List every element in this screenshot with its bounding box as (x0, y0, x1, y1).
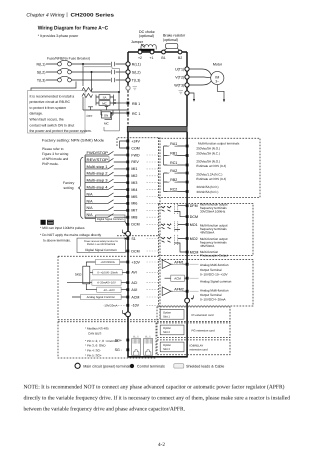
wires drive to motor (189, 69, 211, 85)
svg-text:AFM1: AFM1 (174, 261, 184, 265)
dashed link RB-RC (127, 91, 129, 127)
node R tap (82, 63, 84, 65)
svg-text:B1: B1 (161, 56, 165, 60)
svg-text:REV: REV (131, 160, 139, 164)
svg-text:30V/20mA 100kHz: 30V/20mA 100kHz (200, 210, 226, 214)
svg-text:MI4: MI4 (131, 188, 137, 192)
terminal MI1 (126, 168, 129, 171)
terminal MI6 (126, 202, 129, 205)
comm section dashed box (58, 322, 156, 358)
svg-text:* Pin 3, 6: GND: * Pin 3, 6: GND (85, 344, 106, 348)
svg-text:30Vdc/5A (N.C.): 30Vdc/5A (N.C.) (196, 190, 218, 194)
svg-text:* Pin 4: SG-: * Pin 4: SG- (85, 349, 101, 353)
relay contact RA1 (164, 143, 186, 146)
svg-text:Slot 2: Slot 2 (163, 331, 170, 334)
pushbutton ON with MC holding contact (101, 107, 113, 116)
svg-text:R(L1): R(L1) (132, 62, 141, 66)
svg-text:OFF: OFF (87, 114, 93, 118)
svg-text:PG extension card: PG extension card (192, 329, 215, 333)
svg-text:|: | (66, 12, 67, 18)
svg-text:Chapter 4 Wiring: Chapter 4 Wiring (26, 12, 64, 18)
svg-text:Analog Signal common: Analog Signal common (200, 279, 232, 283)
terminal AFM2 (186, 290, 189, 293)
svg-text:Wiring Diagram for Frame A~C: Wiring Diagram for Frame A~C (38, 26, 109, 32)
svg-text:8←1: 8←1 (145, 336, 151, 339)
ground motor (217, 85, 224, 100)
option slot 2 card box (157, 323, 230, 338)
svg-text:RA1: RA1 (170, 142, 177, 146)
svg-text:* Pin 5: SG+: * Pin 5: SG+ (85, 353, 102, 357)
svg-text:250Vac/1.2A (N.C.): 250Vac/1.2A (N.C.) (196, 173, 222, 177)
opto ratings text (200, 203, 228, 258)
svg-text:R(L1): R(L1) (37, 62, 46, 66)
svg-text:B2: B2 (178, 56, 182, 60)
svg-text:Main circuit (power) terminals: Main circuit (power) terminals (83, 365, 131, 369)
terminal MI5 (126, 195, 129, 198)
relay contact RB1 (164, 152, 186, 156)
svg-text:EN954-1 and IEC/EN61508: EN954-1 and IEC/EN61508 (87, 243, 116, 246)
terminal B2 (178, 50, 182, 54)
svg-text:+10V: +10V (131, 260, 140, 264)
output bus (186, 52, 188, 126)
svg-text:+24V: +24V (131, 139, 140, 143)
svg-text:extension card: extension card (190, 348, 209, 352)
internal dashed leads digital (147, 155, 159, 224)
svg-text:* MI8 can input 100kHz pulses: * MI8 can input 100kHz pulses (40, 226, 85, 230)
svg-text:Shielded leads & Cable: Shielded leads & Cable (186, 365, 224, 369)
wire AVI (94, 271, 127, 273)
digital section dashed box (117, 138, 160, 320)
svg-text:MI8: MI8 (131, 216, 137, 220)
svg-text:+10V/20mA: +10V/20mA (101, 261, 115, 264)
svg-text:Fuse/NFB(No Fuse Breaker): Fuse/NFB(No Fuse Breaker) (47, 57, 90, 61)
op-amp AFM1 (162, 260, 171, 269)
MC contact R (111, 62, 115, 66)
svg-text:+2: +2 (138, 56, 142, 60)
svg-text:MC: MC (102, 101, 107, 105)
switch Multi-step 1 (85, 165, 127, 169)
MC contact T (111, 78, 115, 82)
svg-text:ACM: ACM (131, 295, 139, 299)
terminal +24V (126, 140, 129, 143)
input bus (127, 52, 129, 89)
svg-text:W(T3): W(T3) (174, 83, 184, 87)
svg-text:damage.: damage. (30, 112, 43, 116)
svg-text:between the variable frequency: between the variable frequency drive and… (24, 407, 186, 413)
relay output dashed box (158, 138, 260, 197)
svg-text:Power removal safety function: Power removal safety function for (84, 240, 118, 243)
wire +10V (94, 261, 127, 263)
svg-text:NOTE: It is recommended NOT to: NOTE: It is recommended NOT to connect a… (24, 384, 285, 390)
svg-text:Photocoupler Output: Photocoupler Output (200, 254, 228, 258)
jumper loop +24V COM (120, 141, 127, 148)
fuse resistor F2 (82, 94, 93, 98)
svg-text:(optional): (optional) (139, 34, 154, 38)
safety function box S1 (77, 238, 125, 253)
svg-text:Digital Signal Common: Digital Signal Common (97, 217, 124, 221)
svg-text:MC: MC (104, 122, 109, 126)
relay ratings text (196, 146, 226, 193)
svg-text:IO extension card: IO extension card (192, 313, 214, 317)
svg-text:3~: 3~ (215, 80, 219, 84)
svg-text:N/A: N/A (87, 192, 94, 196)
terminal COM (126, 147, 129, 150)
svg-text:DCM: DCM (131, 223, 139, 227)
wire control power tap (84, 67, 119, 91)
svg-text:to above terminals.: to above terminals. (43, 239, 71, 243)
svg-text:S1: S1 (131, 237, 135, 241)
wire R drop (82, 64, 84, 86)
option slot 3 card box (157, 340, 230, 355)
svg-text:4~20mA/0~10V: 4~20mA/0~10V (97, 282, 116, 285)
svg-text:S(L2): S(L2) (132, 70, 141, 74)
svg-text:setting: setting (64, 186, 74, 190)
svg-text:Analog Signal Common: Analog Signal Common (87, 296, 116, 299)
svg-text:0~10VDC/-10~+10V: 0~10VDC/-10~+10V (200, 273, 228, 277)
legend shielded cable (174, 364, 184, 368)
svg-text:Digital Signal Common: Digital Signal Common (85, 248, 117, 252)
svg-text:Output Terminal: Output Terminal (200, 293, 222, 297)
fuse resistor F1 (82, 88, 93, 92)
terminal -10V (126, 304, 129, 307)
afm text (200, 263, 232, 302)
brake resistor body (166, 44, 178, 49)
svg-text:MO1: MO1 (190, 223, 198, 227)
svg-text:SG -: SG - (115, 348, 123, 352)
terminal SG- (126, 348, 129, 351)
relay contact group 2 common line (163, 173, 165, 192)
terminal +10V (126, 261, 129, 264)
svg-text:* Do NOT apply the mains volt: * Do NOT apply the mains voltage directl… (40, 233, 101, 237)
photocoupler MO1 (161, 221, 186, 231)
svg-text:V(T2): V(T2) (175, 75, 184, 79)
switch common line (84, 155, 86, 218)
analog output dashed box (158, 259, 253, 306)
wire R phase (46, 63, 126, 65)
svg-text:RA2: RA2 (170, 169, 177, 173)
svg-text:MCM: MCM (190, 250, 199, 254)
terminal MCM (186, 251, 189, 254)
svg-text:ON: ON (104, 113, 108, 117)
svg-text:Estimate at COS (0.4): Estimate at COS (0.4) (196, 164, 226, 168)
svg-text:AVI: AVI (131, 271, 137, 275)
svg-text:T(L3): T(L3) (37, 78, 46, 82)
op-amp AFM2 (162, 287, 171, 296)
svg-text:SA: SA (103, 95, 107, 99)
svg-text:4-2: 4-2 (158, 442, 165, 448)
svg-text:8←1: 8←1 (133, 336, 139, 339)
breaker R (58, 62, 62, 66)
svg-text:Multi-step 3: Multi-step 3 (87, 179, 108, 183)
switch N/A MI8 (85, 214, 127, 218)
terminal S1 (126, 237, 129, 240)
svg-text:Analog Multi-function: Analog Multi-function (200, 288, 229, 292)
photocoupler DFM (161, 204, 186, 217)
internal dashed leads analog (147, 262, 159, 305)
switch Multi-step 2 (85, 172, 127, 176)
option slot 1 card box (157, 307, 230, 322)
svg-text:250Vac/3A (N.C.): 250Vac/3A (N.C.) (196, 152, 219, 156)
svg-text:REV/STOP: REV/STOP (87, 158, 109, 162)
contact SA (99, 95, 110, 100)
svg-text:Option: Option (163, 312, 171, 315)
svg-text:MI2: MI2 (131, 174, 137, 178)
ground terminal output (185, 91, 189, 95)
svg-text:PNP mode.: PNP mode. (42, 162, 59, 166)
analog section dashed box (58, 256, 160, 320)
svg-text:Figure 3 for wiring: Figure 3 for wiring (42, 152, 69, 156)
svg-text:S(L2): S(L2) (37, 70, 46, 74)
terminal RB2r (186, 181, 189, 184)
terminal B1 (162, 50, 166, 54)
svg-text:When fault occurs, the: When fault occurs, the (30, 118, 64, 122)
wire ACI (67, 282, 127, 284)
svg-text:RC2: RC2 (170, 188, 177, 192)
switch FWD/STOP (85, 151, 127, 155)
terminal MO2 (186, 237, 189, 240)
svg-text:It is recommended to install a: It is recommended to install a (30, 94, 75, 98)
factory setting brace (78, 157, 83, 218)
terminal +2 (138, 50, 142, 54)
svg-text:Jumper: Jumper (131, 40, 144, 44)
svg-text:Multi-step 4: Multi-step 4 (87, 186, 108, 190)
svg-text:CH2000 Series: CH2000 Series (71, 12, 115, 18)
terminal REV (126, 161, 129, 164)
wire S drop (91, 72, 93, 92)
main circuit / control circuit separator bar (127, 127, 187, 132)
terminal AFM1 (186, 263, 189, 266)
wire ACM out (165, 277, 186, 279)
ground terminal input (126, 86, 130, 90)
svg-text:48V/50mA: 48V/50mA (200, 230, 215, 234)
terminal DCM3 (186, 215, 189, 218)
svg-text:Slot 3: Slot 3 (163, 348, 170, 351)
wire MC coil return (104, 110, 119, 131)
svg-text:+1: +1 (150, 56, 154, 60)
terminal DCM safety (126, 250, 129, 253)
shield ground node 1 (126, 231, 131, 236)
svg-text:Option: Option (163, 327, 171, 330)
relay contact RB2 (164, 179, 186, 183)
afm leader lines (190, 264, 199, 291)
shield ground node 3 (185, 298, 190, 303)
svg-text:contact will switch ON to shut: contact will switch ON to shut (30, 123, 75, 127)
svg-text:MO2: MO2 (190, 237, 198, 241)
jumper arrow (141, 44, 145, 48)
node J1 (118, 91, 120, 93)
svg-text:-10V: -10V (131, 304, 139, 308)
internal dashed leads S1 (147, 239, 159, 252)
svg-text:Control terminals: Control terminals (137, 365, 165, 369)
svg-text:0~+10V/0~20mA: 0~+10V/0~20mA (97, 271, 117, 274)
svg-text:MI3: MI3 (131, 181, 137, 185)
wire DCM2 (125, 250, 126, 252)
svg-text:* It provides 3-phase power: * It provides 3-phase power (38, 34, 79, 38)
svg-text:RB 1: RB 1 (132, 102, 140, 106)
terminal S(L2) (126, 70, 130, 74)
SA MC parallel loop (96, 95, 114, 106)
terminal RA2 (186, 172, 189, 175)
terminal MI8 (126, 216, 129, 219)
svg-text:DFM: DFM (190, 204, 198, 208)
svg-text:ACI: ACI (131, 281, 137, 285)
svg-text:of NPN mode and: of NPN mode and (42, 157, 68, 161)
svg-text:250Vac/5A (N.O.): 250Vac/5A (N.O.) (196, 146, 220, 150)
svg-text:RB2: RB2 (170, 178, 177, 182)
terminal W(T3) (185, 83, 189, 87)
svg-text:Multi-step 1: Multi-step 1 (87, 165, 108, 169)
svg-text:AFM2: AFM2 (174, 288, 184, 292)
relay wire RC1 (164, 164, 186, 166)
svg-text:RC1: RC1 (170, 161, 177, 165)
terminal V(T2) (185, 75, 189, 79)
relay wire RC2 (164, 191, 186, 193)
svg-text:RB1: RB1 (170, 152, 177, 156)
svg-text:T(L3): T(L3) (132, 78, 141, 82)
svg-text:COM: COM (131, 146, 139, 150)
svg-text:protective circuit at RB-RC: protective circuit at RB-RC (30, 100, 71, 104)
switch Multi-step 4 (85, 186, 127, 190)
svg-text:RC 1: RC 1 (132, 112, 140, 116)
svg-text:5KΩ: 5KΩ (75, 273, 82, 277)
breaker S (58, 70, 62, 74)
terminal RA1 (186, 145, 189, 148)
node S tap (91, 71, 93, 73)
svg-text:N/A: N/A (87, 206, 94, 210)
svg-text:* Modbus RS-485: * Modbus RS-485 (85, 327, 109, 331)
svg-text:ACM: ACM (174, 277, 181, 281)
svg-text:Multi-step 2: Multi-step 2 (87, 172, 108, 176)
terminal RB1 (127, 102, 130, 105)
terminal DCM (126, 223, 129, 226)
wire loop to bus (83, 97, 116, 110)
switch REV/STOP (85, 158, 127, 162)
terminal FWD (126, 154, 129, 157)
svg-text:MI7: MI7 (131, 209, 137, 213)
svg-text:Slot 1: Slot 1 (163, 316, 170, 319)
top DC bus (128, 51, 187, 53)
wire to MC coil loop (92, 91, 120, 93)
svg-text:Option: Option (163, 344, 171, 347)
wire to RC1 (112, 113, 127, 120)
svg-text:* Pin 1~2, 7, 8 : reserved: * Pin 1~2, 7, 8 : reserved (85, 339, 118, 343)
svg-text:-10~+10V: -10~+10V (103, 289, 115, 292)
svg-text:directly to the variable frequ: directly to the variable frequency drive… (24, 396, 291, 402)
terminal RC1 (127, 112, 130, 115)
terminal MI7 (126, 209, 129, 212)
brake resistor leads (164, 48, 180, 50)
svg-text:Multi-function output terminal: Multi-function output terminals (198, 142, 240, 146)
DC choke coil (141, 45, 156, 50)
wire S1 (124, 238, 127, 240)
svg-text:FWD: FWD (131, 153, 140, 157)
pushbutton OFF (88, 107, 93, 110)
svg-text:48V/50mA: 48V/50mA (200, 244, 215, 248)
wire S phase (46, 71, 126, 73)
wire to RB1 (114, 102, 127, 104)
relay contact RA2 (164, 170, 186, 173)
svg-text:30Vdc/5A (N.O.): 30Vdc/5A (N.O.) (196, 185, 218, 189)
ground drive (189, 93, 194, 99)
svg-text:to protect it from system: to protect it from system (30, 106, 67, 110)
switch Multi-step 3 (85, 179, 127, 183)
note box protective circuit (28, 91, 86, 134)
svg-text:(optional): (optional) (163, 38, 178, 42)
svg-text:Factory setting: NPN (SINK) Mo: Factory setting: NPN (SINK) Mode (42, 139, 104, 143)
relay labels group 1 (167, 142, 177, 166)
svg-text:Output Terminal: Output Terminal (200, 268, 222, 272)
svg-text:CAN BUS: CAN BUS (88, 331, 101, 335)
terminal AVI (126, 271, 129, 274)
breaker T (58, 78, 62, 82)
wire AUI (94, 289, 127, 291)
wire ACM (72, 296, 127, 298)
svg-text:DCM: DCM (131, 249, 139, 253)
svg-text:N/A: N/A (87, 213, 94, 217)
relay contact group 1 common line (163, 146, 165, 165)
svg-text:SG+: SG+ (115, 338, 122, 342)
legend main circuit terminal (75, 363, 80, 368)
photocoupler MO2 (161, 235, 186, 252)
svg-text:Motor: Motor (213, 63, 223, 67)
terminal +1 (150, 50, 154, 54)
relay labels group 2 (167, 169, 177, 192)
opto output dashed box (158, 203, 253, 255)
terminal U(T1) (185, 67, 189, 71)
terminal RB1r (186, 154, 189, 157)
digital signal common wire (85, 217, 96, 219)
bottom bus line (127, 356, 187, 358)
svg-text:FWD/STOP: FWD/STOP (87, 151, 109, 155)
svg-text:Factory: Factory (63, 181, 75, 185)
terminal AUI (126, 288, 129, 291)
terminal MI3 (126, 181, 129, 184)
svg-text:-10V/20mA: -10V/20mA (104, 303, 118, 307)
terminal DFM (186, 204, 189, 207)
svg-text:MI1: MI1 (131, 167, 137, 171)
motor M1 (211, 71, 224, 84)
wire T phase (46, 79, 126, 81)
terminal MI2 (126, 174, 129, 177)
shield ground node 2 (126, 312, 131, 317)
terminal ACM (126, 296, 129, 299)
terminal ACM out (186, 277, 189, 280)
control bus left (127, 132, 129, 357)
legend control terminal (130, 364, 134, 368)
terminal MO1 (186, 223, 189, 226)
terminal RC1r (186, 164, 189, 167)
svg-text:U(T1): U(T1) (175, 67, 184, 71)
svg-text:0~10VDC/4~20mA: 0~10VDC/4~20mA (200, 298, 227, 302)
terminal SG+ (126, 339, 129, 342)
pulse icon (41, 220, 46, 225)
terminal ACI (126, 281, 129, 284)
svg-text:AUI: AUI (131, 288, 137, 292)
output bus lower (186, 132, 188, 357)
svg-text:Estimate at COS (0.4): Estimate at COS (0.4) (196, 177, 226, 181)
svg-text:DCM: DCM (190, 215, 198, 219)
svg-text:250Vac/5A (N.O.): 250Vac/5A (N.O.) (196, 159, 220, 163)
terminal T(L3) (126, 78, 130, 82)
terminal R(L1) (126, 62, 130, 66)
switch N/A MI6 (85, 200, 127, 204)
svg-text:N/A: N/A (87, 199, 94, 203)
wire OFF/ON row (83, 109, 128, 111)
switch N/A MI7 (85, 207, 127, 211)
wire MC vertical (118, 92, 120, 110)
leader line to note (31, 82, 76, 91)
svg-text:Please refer to: Please refer to (42, 147, 64, 151)
